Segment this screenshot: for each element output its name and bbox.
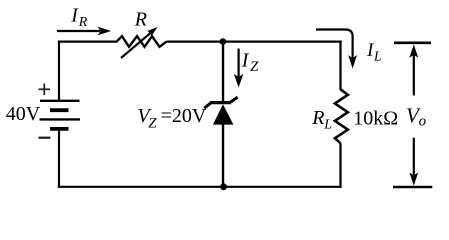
node junction bottom <box>220 183 227 190</box>
label V_Z =20V <box>137 105 206 132</box>
node junction top (zener tap) <box>220 38 227 45</box>
svg-text:R: R <box>311 107 324 129</box>
svg-text:=20V: =20V <box>161 105 207 127</box>
current arrow I_Z <box>234 49 244 88</box>
battery minus sign <box>39 137 51 139</box>
current arrow I_L (curved) <box>316 30 357 69</box>
battery plus sign <box>39 84 51 96</box>
zener diode DZ <box>204 97 237 125</box>
wire bottom <box>58 186 342 188</box>
wire zener branch lower <box>222 124 224 187</box>
wire right rail lower <box>339 143 341 188</box>
label R_L <box>311 107 332 132</box>
svg-text:Z: Z <box>148 115 157 131</box>
battery B1 (40V) <box>40 101 81 129</box>
svg-text:40V: 40V <box>6 103 41 125</box>
wire left rail lower <box>58 129 60 188</box>
resistor R_L zigzag <box>335 89 348 143</box>
wire top left segment <box>58 40 117 42</box>
svg-text:I: I <box>241 50 250 72</box>
svg-text:R: R <box>78 15 88 30</box>
wire zener branch upper <box>222 42 224 103</box>
label I_L <box>366 40 382 64</box>
svg-text:L: L <box>373 49 382 64</box>
Vo bottom reference bar <box>393 186 432 189</box>
svg-text:Z: Z <box>250 59 259 75</box>
Vo arrow down <box>409 138 418 186</box>
wire left rail upper <box>58 41 60 102</box>
svg-text:L: L <box>323 117 332 132</box>
svg-text:o: o <box>419 113 427 129</box>
current arrow I_R <box>57 27 111 36</box>
Vo top reference bar <box>394 41 431 44</box>
Vo arrow up <box>409 44 418 95</box>
wire top right segment <box>167 40 342 42</box>
svg-text:R: R <box>134 9 147 31</box>
label I_R <box>70 5 88 31</box>
resistor R (variable) zigzag <box>117 36 167 47</box>
svg-text:10kΩ: 10kΩ <box>353 108 398 130</box>
wire right rail upper <box>339 41 341 91</box>
label I_Z <box>241 50 259 76</box>
variable resistor arrow through R <box>121 27 158 58</box>
label V_o <box>406 103 427 129</box>
